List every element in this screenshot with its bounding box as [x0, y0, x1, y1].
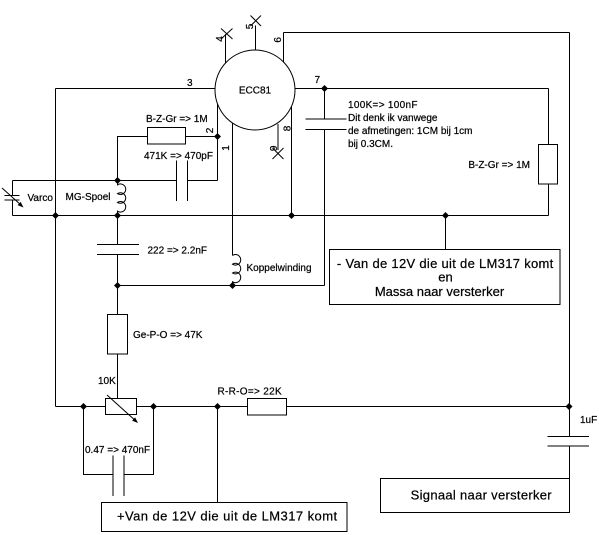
variable capacitor Varco plates	[5, 196, 20, 200]
capacitor C6 1uF plates	[548, 437, 590, 447]
wire R2 bottom vertical	[548, 184, 550, 216]
svg-text:+Van de 12V die uit de LM317 k: +Van de 12V die uit de LM317 komt	[117, 509, 338, 524]
wire pin6 riser	[283, 33, 285, 63]
no-connect X pin 9	[273, 148, 284, 159]
junction dot pin8 node	[288, 212, 295, 219]
junction dot pin7 node	[321, 85, 328, 92]
svg-text:7: 7	[315, 75, 321, 86]
svg-text:de afmetingen: 1CM bij 1cm: de afmetingen: 1CM bij 1cm	[348, 126, 473, 137]
wire pin5 stub	[255, 26, 257, 51]
wire pin1 vertical	[232, 123, 234, 255]
potentiometer P1 10K box	[106, 399, 137, 415]
wire R1 right lead	[186, 136, 218, 138]
junction dot massa stub node	[442, 212, 449, 219]
svg-text:100K=> 100nF: 100K=> 100nF	[348, 100, 418, 111]
junction dot coil bottom node	[114, 212, 121, 219]
wire varco branch vertical	[12, 181, 14, 196]
wire C6 bottom lead	[569, 446, 571, 479]
no-connect X pin 4	[221, 29, 233, 40]
svg-text:en: en	[438, 270, 452, 285]
wire R2 top vertical	[548, 89, 550, 145]
svg-text:Koppelwinding: Koppelwinding	[247, 263, 312, 274]
svg-text:B-Z-Gr => 1M: B-Z-Gr => 1M	[146, 114, 208, 125]
annotation box minus 12V massa	[330, 250, 561, 305]
svg-text:Ge-P-O => 47K: Ge-P-O => 47K	[133, 330, 203, 341]
resistor R4 R-R-O 22K box	[248, 399, 287, 416]
wire pin7 horizontal	[294, 88, 548, 90]
resistor R3 Ge-P-O 47K box	[108, 315, 128, 355]
svg-text:3: 3	[187, 78, 193, 89]
svg-text:1: 1	[221, 145, 232, 151]
junction dot C3 bottom node	[114, 282, 121, 289]
junction dot right rail bottom node	[566, 403, 573, 410]
wire pin4 stub	[225, 34, 227, 63]
svg-text:bij 0.3CM.: bij 0.3CM.	[348, 139, 393, 150]
svg-text:ECC81: ECC81	[239, 86, 272, 97]
wire bottom rail segment 3	[287, 406, 569, 408]
wire pin8 vertical	[291, 106, 293, 215]
wire +12V stub vertical	[217, 407, 219, 503]
wire R3 top lead	[117, 286, 119, 315]
junction dot +12V stub node	[214, 403, 221, 410]
wire C2 branch vertical lower	[324, 130, 326, 286]
junction dot pin2 node	[214, 133, 221, 140]
svg-text:10K: 10K	[98, 376, 116, 387]
wire left rail vertical	[55, 89, 57, 407]
svg-text:1uF: 1uF	[580, 415, 597, 426]
wire C2 branch vertical upper	[324, 89, 326, 120]
op-amp U1 triode ECC81 envelope circle	[215, 50, 295, 130]
wire varco branch vertical lower	[12, 200, 14, 216]
wire C6 top lead	[569, 407, 571, 437]
svg-text:MG-Spoel: MG-Spoel	[66, 192, 111, 203]
wire R3 bottom lead	[117, 354, 119, 399]
resistor R2 B-Z-Gr 1M anode box	[539, 145, 558, 185]
wire R1 left lead	[118, 137, 148, 181]
capacitor C3 2.2nF plates	[97, 245, 139, 255]
wire -12V stub vertical	[445, 216, 447, 250]
inductor L1 MG-Spoel coil	[118, 181, 126, 216]
svg-text:R-R-O=> 22K: R-R-O=> 22K	[218, 387, 282, 398]
svg-text:Signaal naar versterker: Signaal naar versterker	[411, 488, 553, 503]
inductor L2 Koppelwinding coil	[233, 255, 241, 286]
junction dot left rail mid node	[52, 212, 59, 219]
svg-text:8: 8	[283, 125, 294, 131]
wire pin9 stub	[277, 124, 279, 150]
wire C5 right lead	[124, 407, 154, 475]
svg-text:222 => 2.2nF: 222 => 2.2nF	[148, 246, 208, 257]
svg-text:4: 4	[215, 36, 226, 42]
resistor R1 B-Z-Gr 1M grid-leak box	[148, 128, 186, 145]
capacitor C2 100nF plates	[306, 119, 347, 130]
arrow of variable capacitor Varco	[2, 188, 24, 208]
wire grid cap right horizontal	[188, 180, 218, 182]
arrow of potentiometer P1	[107, 395, 138, 423]
wire bottom rail segment 2	[137, 406, 248, 408]
capacitor C5 470nF plates	[113, 456, 124, 497]
svg-text:Massa naar versterker: Massa naar versterker	[375, 284, 505, 299]
wire pin2 vertical	[217, 104, 219, 181]
svg-text:Dit denk ik vanwege: Dit denk ik vanwege	[348, 113, 438, 124]
wire mid rail horizontal	[13, 215, 549, 217]
junction dot coil top node	[114, 177, 121, 184]
junction dot koppelwinding bottom node	[229, 282, 236, 289]
no-connect X pin 5	[251, 16, 262, 27]
wire varco top horizontal	[13, 180, 177, 182]
capacitor C1 470pF plates	[177, 161, 188, 202]
svg-text:2: 2	[205, 127, 216, 133]
svg-text:B-Z-Gr => 1M: B-Z-Gr => 1M	[468, 160, 530, 171]
junction dot C5 left node	[80, 403, 87, 410]
svg-text:0.47 => 470nF: 0.47 => 470nF	[85, 445, 150, 456]
wire coupling bottom horizontal	[118, 285, 325, 287]
wire C3 branch vertical upper	[117, 216, 119, 245]
wire top rail horizontal	[284, 32, 570, 34]
wire pin3 horizontal	[56, 88, 216, 90]
annotation box plus 12V	[102, 503, 348, 532]
wire C5 left lead	[84, 407, 114, 475]
junction dot C5 right node	[150, 403, 157, 410]
svg-text:5: 5	[245, 23, 256, 29]
svg-text:9: 9	[269, 145, 280, 151]
svg-text:6: 6	[273, 37, 284, 43]
annotation box signaal naar versterker	[381, 479, 570, 513]
svg-text:471K => 470pF: 471K => 470pF	[144, 151, 213, 162]
wire right rail vertical	[569, 33, 571, 407]
wire bottom rail segment 1	[56, 406, 106, 408]
svg-text:Varco: Varco	[28, 193, 54, 204]
wire C3 branch vertical lower	[117, 255, 119, 286]
